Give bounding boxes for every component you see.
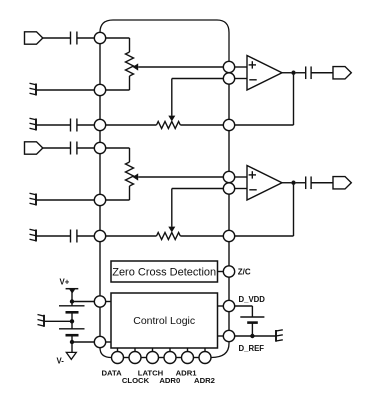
svg-text:V-: V- <box>57 356 65 365</box>
svg-text:CLOCK: CLOCK <box>122 376 150 385</box>
svg-text:Zero Cross Detection: Zero Cross Detection <box>112 267 216 279</box>
svg-text:ADR0: ADR0 <box>159 376 180 385</box>
svg-text:V+: V+ <box>60 277 70 286</box>
svg-text:D_REF: D_REF <box>239 344 265 353</box>
svg-text:DATA: DATA <box>101 368 122 377</box>
svg-text:D_VDD: D_VDD <box>239 295 266 304</box>
svg-text:ADR2: ADR2 <box>194 376 215 385</box>
svg-text:Control Logic: Control Logic <box>133 315 195 327</box>
svg-text:Z/C: Z/C <box>238 267 251 276</box>
